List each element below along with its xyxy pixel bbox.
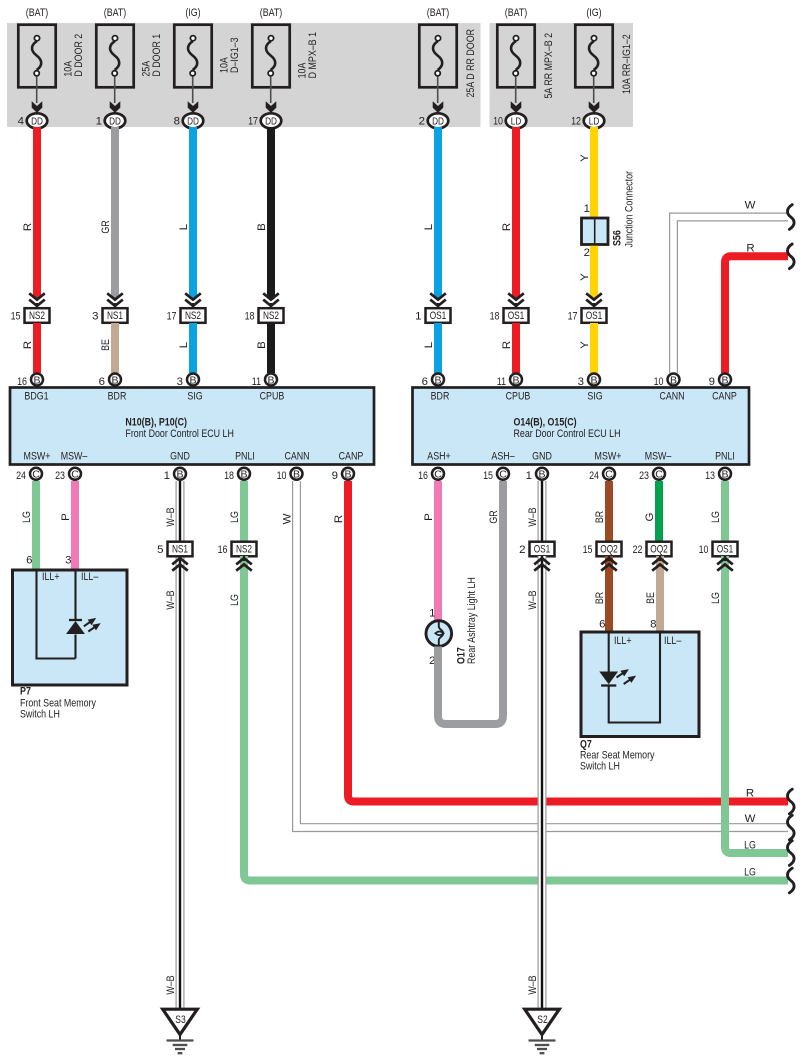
ECU N10(B) P10(C) Front Door Control ECU LH <box>10 388 374 465</box>
svg-text:Y: Y <box>579 273 591 281</box>
ECU1 pin 18 B PNLI <box>224 468 250 482</box>
svg-text:(BAT): (BAT) <box>427 7 450 19</box>
P7 label <box>20 686 96 721</box>
wire L DD2 to OS1 <box>423 127 438 298</box>
wire W ECU1 CANN to right edge <box>282 481 789 832</box>
svg-text:NS2: NS2 <box>236 544 252 556</box>
fuse block band left <box>7 23 481 127</box>
svg-text:2: 2 <box>519 544 525 556</box>
svg-text:BE: BE <box>645 592 657 604</box>
svg-text:R: R <box>501 341 513 349</box>
svg-text:11: 11 <box>497 376 506 388</box>
wire LG ECU1 PNLI upper <box>229 481 244 542</box>
wire P MSW- to P7 ILL- <box>60 481 75 570</box>
ground S2 <box>525 1009 560 1053</box>
wire R DD4 to NS2 <box>22 127 37 298</box>
Q7 label <box>580 739 655 773</box>
svg-text:Switch LH: Switch LH <box>580 761 620 773</box>
svg-text:Junction Connector: Junction Connector <box>624 171 636 248</box>
fuse 10A D DOOR 2 (BAT) <box>18 7 85 129</box>
svg-text:W–B: W–B <box>527 590 539 609</box>
svg-text:MSW–: MSW– <box>61 451 88 463</box>
svg-text:B: B <box>240 469 247 481</box>
switch P7 Front Seat Memory Switch LH box <box>13 570 128 685</box>
svg-text:PNLI: PNLI <box>715 451 735 463</box>
wire W-B ECU1 GND to S3 <box>165 481 184 1008</box>
svg-text:R: R <box>501 223 513 231</box>
svg-text:10: 10 <box>493 115 503 127</box>
svg-text:NS2: NS2 <box>29 310 45 322</box>
svg-text:B: B <box>267 374 274 386</box>
svg-text:11: 11 <box>252 376 261 388</box>
svg-text:GR: GR <box>488 510 500 523</box>
svg-text:1: 1 <box>429 608 435 620</box>
svg-text:BE: BE <box>100 339 112 351</box>
svg-text:GR: GR <box>100 220 112 233</box>
svg-text:B: B <box>256 223 268 231</box>
svg-text:C: C <box>434 469 442 481</box>
svg-text:9: 9 <box>709 376 715 388</box>
svg-text:Switch LH: Switch LH <box>20 709 60 721</box>
svg-text:LD: LD <box>589 116 600 128</box>
break R top right <box>788 244 795 269</box>
svg-text:B: B <box>512 374 519 386</box>
svg-text:C: C <box>32 469 40 481</box>
svg-text:BR: BR <box>594 511 606 523</box>
wire L NS2 to SIG <box>178 323 193 373</box>
svg-text:LG: LG <box>710 511 722 523</box>
svg-text:B: B <box>111 374 118 386</box>
svg-text:NS2: NS2 <box>263 310 279 322</box>
svg-text:OS1: OS1 <box>508 310 525 322</box>
Q7 internal wiring <box>609 633 660 723</box>
ground S3 <box>163 1009 198 1053</box>
svg-text:3: 3 <box>177 376 183 388</box>
svg-text:B: B <box>590 374 597 386</box>
wire BR MSW+ to OQ2 <box>594 481 609 542</box>
svg-text:MSW–: MSW– <box>645 451 672 463</box>
svg-text:B: B <box>256 341 268 349</box>
svg-text:OS1: OS1 <box>534 544 551 556</box>
svg-text:CPUB: CPUB <box>260 390 285 402</box>
svg-text:CANN: CANN <box>284 451 309 463</box>
svg-text:C: C <box>499 469 507 481</box>
break R bottom right <box>788 789 795 814</box>
svg-text:NS2: NS2 <box>185 310 201 322</box>
wire R NS2 to BDG1 <box>22 323 37 373</box>
svg-text:OQ2: OQ2 <box>650 544 668 556</box>
connector OQ2 pin 22 <box>633 542 672 557</box>
svg-text:16: 16 <box>17 376 27 388</box>
svg-text:S3: S3 <box>175 1014 185 1026</box>
svg-text:LG: LG <box>744 840 756 852</box>
svg-text:B: B <box>176 469 183 481</box>
svg-text:25A D RR DOOR: 25A D RR DOOR <box>465 29 477 98</box>
svg-text:R: R <box>333 515 345 523</box>
svg-text:24: 24 <box>589 470 599 482</box>
svg-text:OS1: OS1 <box>586 310 603 322</box>
wire B DD17 to NS2 <box>256 127 271 298</box>
fuse 25A D DOOR 1 (BAT) <box>96 7 163 129</box>
svg-text:23: 23 <box>55 470 65 482</box>
junction connector S56 <box>582 171 636 259</box>
break LG bottom right outer <box>788 868 795 893</box>
connector OS1 pin 10 <box>699 542 738 557</box>
svg-text:6: 6 <box>599 619 605 631</box>
svg-text:BR: BR <box>594 592 606 604</box>
wire GR O17 to ASH- <box>438 481 503 724</box>
wire BE OQ2 to Q7 ILL- <box>645 556 668 632</box>
svg-text:DD: DD <box>265 116 277 128</box>
svg-text:SIG: SIG <box>187 390 202 402</box>
svg-text:LG: LG <box>229 511 241 523</box>
ECU2 pin 24 C MSW+ <box>589 468 615 482</box>
svg-text:LG: LG <box>21 511 33 523</box>
wire B NS2 to CPUB <box>256 323 271 373</box>
svg-text:W: W <box>745 813 756 825</box>
ECU2 pin 1 B GND <box>526 468 548 482</box>
wire Y LD12 to S56 <box>579 127 594 219</box>
svg-text:R: R <box>746 787 754 799</box>
svg-text:W: W <box>282 513 294 524</box>
svg-text:3: 3 <box>578 376 584 388</box>
svg-text:2: 2 <box>584 247 590 259</box>
svg-text:18: 18 <box>490 311 500 323</box>
LED in P7 <box>66 618 101 634</box>
wire W-B ECU2 GND to S2 <box>527 556 550 1008</box>
wire GR DD1 to NS1 <box>100 127 115 298</box>
svg-text:ILL–: ILL– <box>81 571 99 583</box>
svg-text:W–B: W–B <box>165 975 177 994</box>
svg-text:PNLI: PNLI <box>235 451 255 463</box>
ECU1 pin 3 B SIG <box>177 374 199 389</box>
ECU1 pin 16 B BDG1 <box>17 374 43 389</box>
svg-text:C: C <box>655 469 663 481</box>
connector OS1 pin 1 <box>415 293 450 323</box>
wire BR OQ2 to Q7 ILL+ <box>594 556 617 632</box>
svg-text:8: 8 <box>650 619 656 631</box>
ECU2 pin 13 B PNLI <box>705 468 731 482</box>
wire P ASH+ to O17 <box>423 481 438 623</box>
svg-text:17: 17 <box>568 311 578 323</box>
svg-text:B: B <box>434 374 441 386</box>
svg-text:16: 16 <box>218 544 228 556</box>
wire G MSW- to OQ2 <box>644 481 659 542</box>
svg-text:P7: P7 <box>20 686 31 698</box>
svg-text:3: 3 <box>92 311 98 323</box>
svg-text:ILL+: ILL+ <box>42 571 60 583</box>
fuse 10A RR-IG1-2 (IG) <box>571 7 633 129</box>
fuse 10A D MPX-B 1 (BAT) <box>248 7 319 129</box>
connector NS2 pin 17 <box>167 293 206 323</box>
svg-text:1: 1 <box>415 311 421 323</box>
wire R ECU1 CANP to right edge <box>333 481 788 802</box>
svg-text:24: 24 <box>16 470 26 482</box>
svg-text:(BAT): (BAT) <box>260 7 283 19</box>
svg-text:17: 17 <box>167 311 177 323</box>
ECU O14(B) O15(C) Rear Door Control ECU LH <box>413 388 750 465</box>
ECU1 pin 9 B CANP <box>332 468 354 482</box>
svg-text:R: R <box>22 341 34 349</box>
svg-text:D MPX–B 1: D MPX–B 1 <box>307 32 319 78</box>
svg-text:ASH–: ASH– <box>491 451 515 463</box>
fuse 25A D RR DOOR (BAT) <box>419 7 477 129</box>
svg-text:15: 15 <box>483 470 493 482</box>
svg-text:(BAT): (BAT) <box>26 7 49 19</box>
svg-text:LD: LD <box>511 116 522 128</box>
svg-text:(IG): (IG) <box>586 7 601 19</box>
wire LG ECU2 PNLI lower <box>710 556 788 853</box>
wire W to ECU2 CANN <box>670 200 788 374</box>
P7 internal wiring <box>37 571 76 659</box>
svg-text:B: B <box>721 374 728 386</box>
svg-text:NS1: NS1 <box>107 310 123 322</box>
svg-text:CANP: CANP <box>339 451 364 463</box>
svg-text:CPUB: CPUB <box>506 390 531 402</box>
break LG bottom right inner <box>788 841 795 866</box>
connector OS1 pin 18 <box>490 293 529 323</box>
svg-text:W–B: W–B <box>527 975 539 994</box>
svg-text:ILL+: ILL+ <box>614 635 632 647</box>
wire L DD8 to NS2 <box>178 127 193 298</box>
connector OQ2 pin 15 <box>583 542 622 557</box>
wire LG MSW+ to P7 ILL+ <box>21 481 36 570</box>
ECU2 pin 10 B CANN <box>654 374 680 389</box>
wire LG ECU2 PNLI upper <box>710 481 725 542</box>
wire R OS1 to CPUB <box>501 323 516 373</box>
svg-text:18: 18 <box>224 470 234 482</box>
svg-text:L: L <box>423 224 435 230</box>
fuse 5A RR MPX-B 2 (BAT) <box>493 7 555 129</box>
svg-text:16: 16 <box>418 470 428 482</box>
svg-text:GND: GND <box>170 451 190 463</box>
svg-text:BDR: BDR <box>108 390 127 402</box>
svg-text:10: 10 <box>699 544 709 556</box>
svg-text:W: W <box>745 200 756 212</box>
svg-text:OQ2: OQ2 <box>600 544 618 556</box>
svg-text:BDG1: BDG1 <box>24 390 48 402</box>
svg-text:B: B <box>293 469 300 481</box>
svg-text:4: 4 <box>18 115 25 127</box>
svg-text:23: 23 <box>639 470 649 482</box>
svg-text:GND: GND <box>532 451 552 463</box>
svg-text:LG: LG <box>229 594 241 606</box>
svg-text:DD: DD <box>432 116 444 128</box>
svg-text:B: B <box>33 374 40 386</box>
svg-text:(BAT): (BAT) <box>505 7 528 19</box>
svg-text:1: 1 <box>164 470 170 482</box>
connector OS1 pin 17 <box>568 293 607 323</box>
svg-text:(IG): (IG) <box>185 7 200 19</box>
svg-text:LG: LG <box>710 592 722 604</box>
svg-text:L: L <box>423 342 435 348</box>
ECU2 pin 15 C ASH- <box>483 468 509 482</box>
svg-text:OS1: OS1 <box>717 544 734 556</box>
svg-text:15: 15 <box>583 544 593 556</box>
svg-text:MSW+: MSW+ <box>595 451 622 463</box>
svg-text:10A RR–IG1–2: 10A RR–IG1–2 <box>621 34 633 94</box>
svg-text:D DOOR 1: D DOOR 1 <box>151 34 163 77</box>
break W bottom right <box>788 815 795 840</box>
svg-text:R: R <box>22 223 34 231</box>
svg-text:18: 18 <box>245 311 255 323</box>
svg-text:6: 6 <box>99 376 105 388</box>
svg-text:L: L <box>178 224 190 230</box>
svg-text:2: 2 <box>419 115 425 127</box>
svg-text:S2: S2 <box>537 1014 547 1026</box>
svg-text:C: C <box>605 469 613 481</box>
svg-text:1: 1 <box>96 115 102 127</box>
svg-text:5A RR MPX–B 2: 5A RR MPX–B 2 <box>543 33 555 99</box>
svg-text:R: R <box>746 242 754 254</box>
fuse block band right <box>490 23 634 127</box>
wire LG ECU1 PNLI lower <box>229 556 788 881</box>
wire R LD10 to OS1 <box>501 127 516 298</box>
connector NS2 pin 18 <box>245 293 284 323</box>
svg-text:3: 3 <box>65 555 71 567</box>
svg-text:1: 1 <box>584 203 590 215</box>
connector NS1 pin 3 <box>92 293 127 323</box>
fuse 10A D-IG1-3 (IG) <box>174 7 241 129</box>
svg-text:B: B <box>721 469 728 481</box>
svg-text:SIG: SIG <box>587 390 602 402</box>
svg-text:OS1: OS1 <box>430 310 447 322</box>
svg-text:22: 22 <box>633 544 643 556</box>
ECU1 pin 1 B GND <box>164 468 186 482</box>
svg-text:6: 6 <box>26 555 32 567</box>
svg-text:10: 10 <box>277 470 287 482</box>
svg-text:W–B: W–B <box>527 507 539 526</box>
ECU2 pin 16 C ASH+ <box>418 468 444 482</box>
ECU2 pin 11 B CPUB <box>497 374 522 389</box>
svg-text:NS1: NS1 <box>172 544 188 556</box>
svg-text:8: 8 <box>174 115 180 127</box>
LED in Q7 <box>599 669 636 685</box>
svg-text:P: P <box>60 513 72 521</box>
ECU1 pin 10 B CANN <box>277 468 303 482</box>
wire R to ECU2 CANP <box>725 242 788 373</box>
svg-text:6: 6 <box>422 376 428 388</box>
connector NS2 pin 16 <box>218 542 257 557</box>
svg-text:5: 5 <box>157 544 163 556</box>
svg-text:DD: DD <box>31 116 43 128</box>
ECU1 pin 11 B CPUB <box>252 374 277 389</box>
svg-text:ILL–: ILL– <box>664 635 682 647</box>
svg-text:D–IG1–3: D–IG1–3 <box>229 37 241 73</box>
svg-text:Y: Y <box>579 341 591 349</box>
svg-text:Y: Y <box>579 154 591 162</box>
svg-text:BDR: BDR <box>431 390 450 402</box>
ECU1 pin 23 C MSW- <box>55 468 81 482</box>
svg-text:CANN: CANN <box>659 390 684 402</box>
ECU1 pin 6 B BDR <box>99 374 121 389</box>
ECU1 pin 24 C MSW+ <box>16 468 42 482</box>
wire L OS1 to BDR <box>423 323 438 373</box>
svg-text:Rear Ashtray Light LH: Rear Ashtray Light LH <box>466 577 478 664</box>
connector NS2 pin 15 <box>11 293 50 323</box>
svg-text:B: B <box>344 469 351 481</box>
lamp O17 Rear Ashtray Light LH <box>426 577 478 667</box>
svg-text:LG: LG <box>744 866 756 878</box>
svg-text:Rear Door Control ECU LH: Rear Door Control ECU LH <box>514 428 621 440</box>
svg-text:13: 13 <box>705 470 715 482</box>
svg-text:S56: S56 <box>611 230 623 246</box>
svg-text:12: 12 <box>571 115 581 127</box>
wire Y OS1 to SIG <box>579 323 594 373</box>
svg-text:D DOOR 2: D DOOR 2 <box>73 34 85 77</box>
connector OS1 pin 2 <box>519 542 554 557</box>
svg-text:9: 9 <box>332 470 338 482</box>
svg-text:W–B: W–B <box>165 507 177 526</box>
svg-text:DD: DD <box>187 116 199 128</box>
svg-text:B: B <box>189 374 196 386</box>
ECU2 pin 23 C MSW- <box>639 468 665 482</box>
svg-text:W–B: W–B <box>165 590 177 609</box>
svg-text:P: P <box>423 513 435 521</box>
svg-text:MSW+: MSW+ <box>24 451 51 463</box>
wire W-B ECU2 GND upper <box>527 481 546 542</box>
svg-text:C: C <box>71 469 79 481</box>
svg-text:Front Door Control ECU LH: Front Door Control ECU LH <box>125 428 233 440</box>
svg-text:10: 10 <box>654 376 664 388</box>
connector NS1 pin 5 <box>157 542 192 995</box>
wire BE NS1 to BDR <box>100 323 115 373</box>
svg-text:DD: DD <box>109 116 121 128</box>
svg-text:B: B <box>538 469 545 481</box>
switch Q7 Rear Seat Memory Switch LH box <box>581 632 699 737</box>
svg-text:1: 1 <box>526 470 532 482</box>
svg-text:B: B <box>670 374 677 386</box>
svg-text:CANP: CANP <box>712 390 737 402</box>
svg-text:15: 15 <box>11 311 21 323</box>
wire Y S56 to OS1 <box>579 246 594 298</box>
svg-text:G: G <box>644 512 656 521</box>
svg-text:(BAT): (BAT) <box>104 7 127 19</box>
ECU2 pin 9 B CANP <box>709 374 731 389</box>
ECU2 pin 3 B SIG <box>578 374 600 389</box>
svg-text:ASH+: ASH+ <box>427 451 451 463</box>
break W top right <box>788 205 795 230</box>
svg-text:17: 17 <box>248 115 258 127</box>
svg-text:L: L <box>178 342 190 348</box>
ECU2 pin 6 B BDR <box>422 374 444 389</box>
